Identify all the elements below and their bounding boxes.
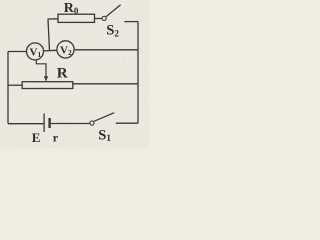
switch S1 [90, 113, 114, 145]
paper background [0, 0, 149, 148]
wire R to right rail [73, 83, 138, 85]
battery E with internal resistance r [32, 114, 59, 145]
resistor R0 [58, 1, 95, 22]
switch S2 [102, 5, 121, 40]
rheostat slider arrow from V1 bottom [36, 60, 48, 81]
wire S2 to right rail [124, 21, 138, 23]
wire S1 to right rail [116, 122, 138, 124]
resistor R (rheostat) [22, 66, 73, 89]
wire between V1 and V2 [44, 49, 58, 52]
voltmeter V2 [57, 41, 74, 58]
wire left rail to R [8, 84, 22, 86]
svg-text:E: E [32, 130, 41, 145]
wire V1 to left rail [8, 51, 27, 53]
wire top-left corner (node to R0) [48, 19, 58, 51]
svg-text:r: r [53, 131, 59, 145]
wire battery to S1 [51, 123, 90, 125]
svg-text:R: R [57, 66, 68, 82]
voltmeter V1 [27, 43, 44, 60]
wire R0 to S2 [95, 18, 102, 20]
wire left rail [7, 52, 9, 124]
wire V2 to right rail [74, 49, 138, 51]
wire right rail [137, 22, 139, 124]
wire bottom-left [8, 123, 44, 125]
